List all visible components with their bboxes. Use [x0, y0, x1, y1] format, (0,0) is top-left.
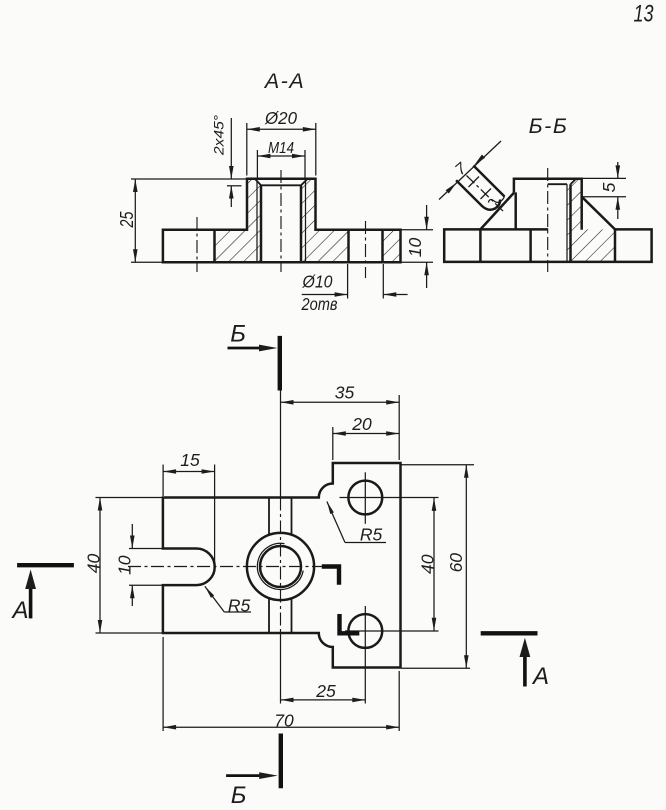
svg-text:R5: R5 — [228, 596, 251, 616]
dim D20 A-A — [247, 108, 316, 176]
svg-text:M14: M14 — [268, 140, 294, 157]
svg-text:10: 10 — [114, 555, 134, 575]
dim 40 plan left — [84, 498, 163, 634]
dim 25 plan — [281, 681, 366, 702]
svg-text:40: 40 — [84, 554, 104, 574]
svg-text:15: 15 — [180, 450, 200, 470]
hole left edge A-A — [347, 230, 350, 263]
centerline boss A-A — [280, 170, 282, 272]
chamfer A-A — [255, 179, 308, 186]
rib edge lines plan — [269, 498, 292, 634]
top hole crosshair — [340, 472, 439, 524]
hole right edge A-A — [381, 230, 384, 263]
R5 label right — [327, 502, 386, 545]
svg-text:А-А: А-А — [263, 69, 305, 93]
bore lines B-B — [567, 184, 571, 262]
dim 2x45 A-A — [211, 115, 242, 207]
vertical centerline plan — [280, 391, 282, 704]
svg-text:R5: R5 — [360, 525, 383, 545]
centerline slot A-A — [196, 217, 198, 272]
plan outline with slot and fillets — [163, 463, 401, 668]
hatch right of bore A-A — [301, 179, 349, 263]
chamfer B-B — [548, 179, 576, 185]
dim 60 plan — [402, 465, 475, 669]
slot end line A-A — [213, 230, 216, 263]
dim 40 plan right — [417, 498, 437, 631]
dim 35 plan — [281, 383, 400, 461]
plate outline B-B — [444, 229, 651, 262]
bore circle plan — [260, 546, 301, 587]
svg-text:40: 40 — [417, 554, 437, 574]
dim 25 A-A — [117, 179, 247, 262]
rib slopes B-B — [480, 193, 615, 230]
removed rib section detail B-B — [439, 141, 505, 213]
svg-text:Б: Б — [231, 782, 247, 809]
svg-text:60: 60 — [446, 553, 466, 573]
svg-text:5: 5 — [599, 182, 619, 192]
dim D10 2otv A-A — [301, 264, 408, 314]
thread arc plan — [257, 543, 303, 589]
svg-text:А: А — [531, 663, 549, 690]
section mark B top — [228, 321, 280, 391]
svg-text:2отв: 2отв — [301, 294, 338, 314]
svg-text:20: 20 — [351, 414, 372, 434]
svg-text:Ø10: Ø10 — [302, 272, 333, 292]
section step mark upper — [322, 567, 339, 585]
hatch right edge A-A — [383, 230, 401, 263]
dim 20 plan — [333, 414, 399, 460]
top hole plan — [348, 481, 382, 515]
svg-text:13: 13 — [634, 1, 654, 28]
section mark B bottom — [226, 734, 281, 810]
svg-text:35: 35 — [335, 383, 355, 403]
svg-text:Ø20: Ø20 — [264, 108, 297, 128]
section A-A title — [263, 69, 305, 93]
outline A-A — [163, 179, 401, 263]
dim 70 plan — [163, 637, 399, 731]
hatch B-B — [567, 179, 615, 262]
dim 5 B-B — [582, 162, 626, 219]
section step mark lower — [340, 614, 360, 633]
dim M14 A-A — [257, 140, 305, 178]
bore lines A-A — [261, 185, 301, 262]
hatch left part A-A — [215, 179, 262, 263]
horizontal centerline plan — [128, 566, 322, 568]
svg-text:70: 70 — [274, 711, 294, 731]
svg-text:Б-Б: Б-Б — [529, 114, 569, 138]
R5 label left — [205, 586, 251, 615]
section B-B title — [529, 114, 569, 138]
svg-text:Б: Б — [230, 321, 246, 348]
centerline hole A-A — [365, 221, 367, 278]
boss outline B-B — [514, 179, 582, 230]
svg-text:25: 25 — [117, 211, 137, 229]
plate inner verticals B-B — [480, 229, 615, 262]
bottom hole crosshair — [345, 606, 439, 704]
svg-text:2x45°: 2x45° — [211, 115, 227, 157]
svg-text:10: 10 — [405, 238, 425, 258]
dim 10 slot plan — [114, 524, 162, 606]
svg-text:А: А — [10, 597, 28, 624]
centerline B-B — [547, 168, 549, 272]
svg-text:25: 25 — [315, 681, 336, 701]
dim 15 plan — [163, 450, 215, 566]
dim 10 right A-A — [401, 205, 433, 288]
bottom hole plan — [348, 614, 382, 648]
boss circle plan — [247, 533, 314, 600]
section mark A left — [10, 565, 73, 624]
section mark A right — [481, 633, 549, 690]
thread crest lines A-A — [257, 181, 306, 263]
